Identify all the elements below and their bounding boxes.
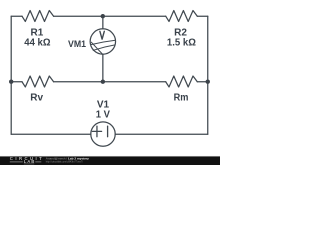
wire: top middle segment — [54, 15, 166, 17]
resistor Rv — [22, 76, 54, 87]
wire: top-left stub — [11, 15, 22, 17]
VM1 meter scale arc upper — [91, 40, 115, 44]
svg-text:Rm: Rm — [174, 93, 189, 104]
wire: top-right stub — [197, 15, 207, 17]
junction node: right rail / middle wire — [206, 80, 210, 84]
wire: middle-right stub — [197, 81, 207, 83]
wire: bottom-left segment — [11, 133, 91, 135]
circuitlab logo — [10, 156, 42, 164]
VM1 needle — [91, 42, 103, 54]
junction node: voltmeter / middle wire — [101, 80, 105, 84]
watermark title text — [46, 157, 89, 161]
svg-text:44 kΩ: 44 kΩ — [24, 38, 50, 49]
wire: bottom-right segment — [115, 133, 208, 135]
wire: middle segment — [54, 81, 166, 83]
voltmeter VM1 body — [90, 29, 115, 54]
svg-text:Rv: Rv — [30, 93, 43, 104]
watermark url text — [46, 160, 83, 164]
svg-text:1.5 kΩ: 1.5 kΩ — [167, 38, 196, 49]
wire: voltmeter branch upper — [102, 16, 104, 29]
junction node: top voltmeter tap — [101, 14, 105, 18]
watermark bar — [0, 156, 220, 165]
wire: middle-left stub — [11, 81, 22, 83]
junction node: left rail / middle wire — [9, 80, 13, 84]
wire: left rail — [10, 16, 12, 134]
VM1 meter scale arc lower — [93, 45, 115, 50]
resistor R2 — [166, 11, 198, 22]
resistor Rm — [166, 76, 198, 87]
svg-text:VM1: VM1 — [68, 39, 86, 49]
V1 plus sign — [92, 126, 101, 137]
svg-text:http://circuitlab.com/c/843tn7: http://circuitlab.com/c/843tn77uvs7/ — [46, 160, 83, 164]
resistor R1 — [22, 11, 54, 22]
svg-text:1 V: 1 V — [96, 110, 111, 121]
voltage source V1 body — [91, 122, 115, 146]
svg-text:LAB: LAB — [24, 159, 35, 164]
wire: right rail — [207, 16, 209, 134]
V1 cell bar — [107, 126, 109, 137]
wire: voltmeter branch lower — [102, 54, 104, 82]
VM1 V letter — [100, 31, 104, 39]
